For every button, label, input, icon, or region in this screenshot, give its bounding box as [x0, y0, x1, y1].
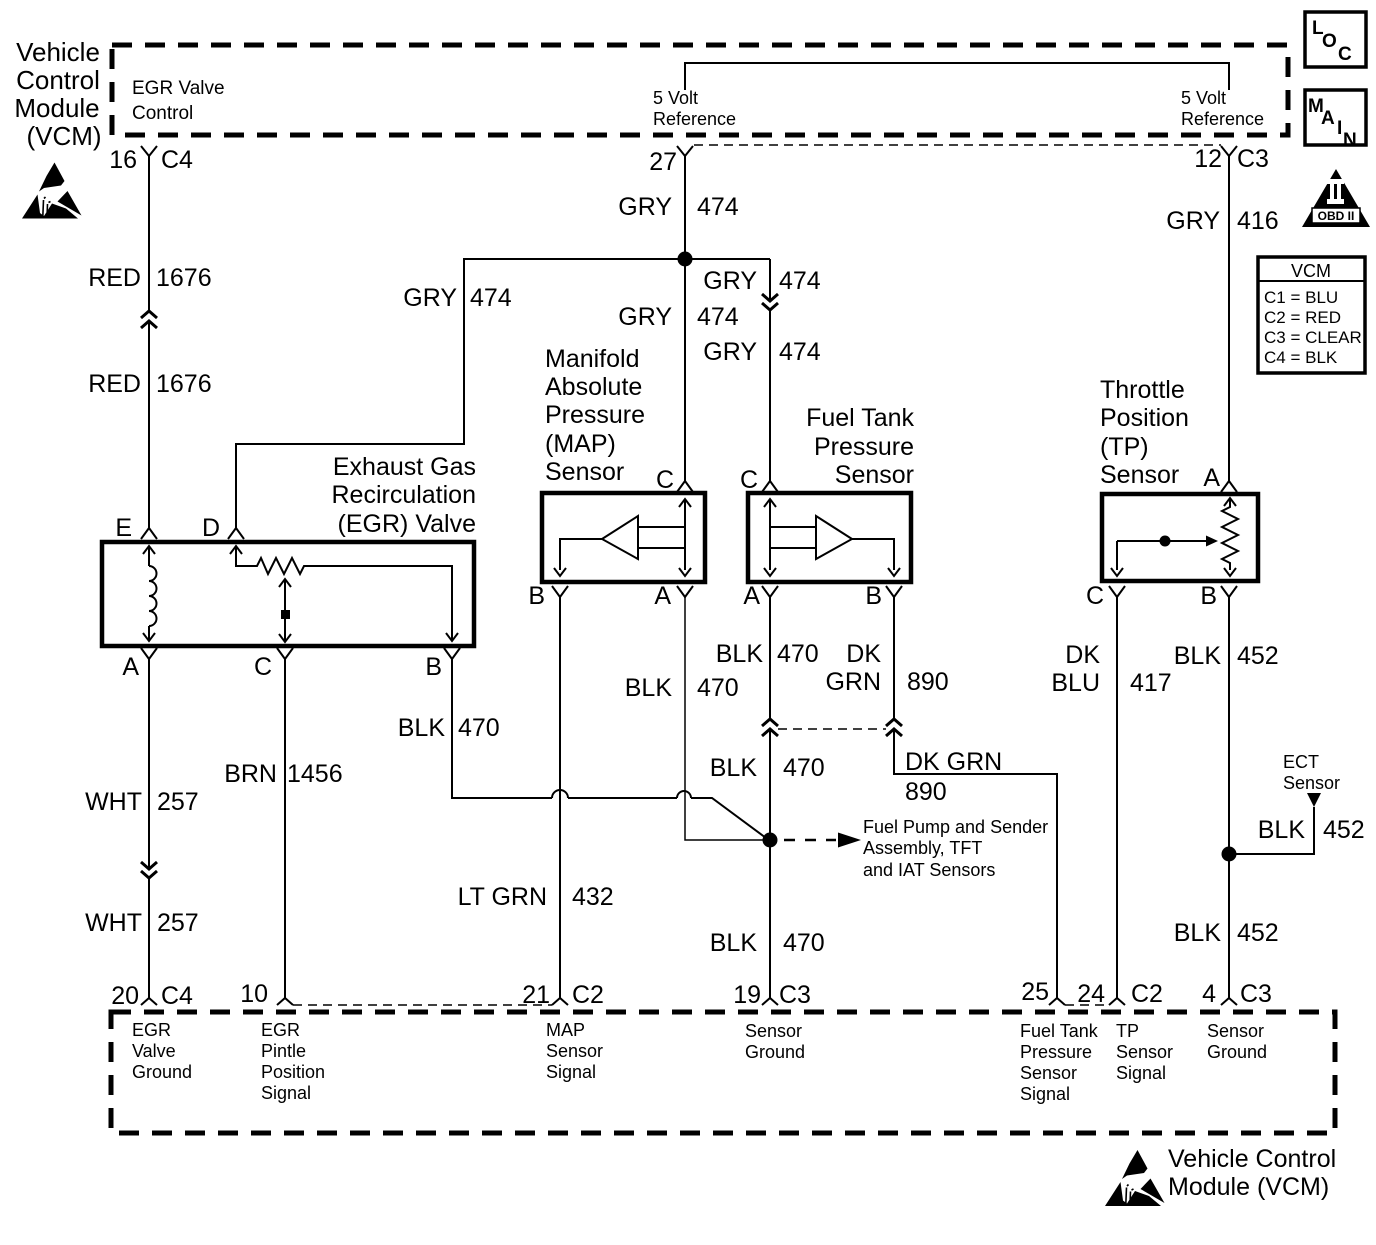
svg-text:C: C	[1086, 582, 1104, 610]
connector fork TP pin C	[1109, 586, 1125, 597]
svg-text:Sensor: Sensor	[1207, 1021, 1264, 1041]
wire break chevrons (up) FTP B	[886, 719, 902, 736]
wire GRY 416 pin 12 to TP A	[1228, 156, 1230, 481]
wire GRY 474 FTP C lower	[769, 310, 771, 481]
svg-text:C4 = BLK: C4 = BLK	[1264, 348, 1338, 367]
svg-text:Pintle: Pintle	[261, 1041, 306, 1061]
svg-text:432: 432	[572, 883, 614, 911]
svg-text:Sensor: Sensor	[1100, 461, 1179, 489]
svg-text:417: 417	[1130, 669, 1172, 697]
wire BRN 1456 EGR C to pin 10	[284, 659, 286, 998]
svg-text:Fuel Tank: Fuel Tank	[1020, 1021, 1099, 1041]
svg-text:10: 10	[240, 980, 268, 1008]
svg-text:and IAT Sensors: and IAT Sensors	[863, 860, 995, 880]
svg-text:C2 = RED: C2 = RED	[1264, 308, 1341, 327]
svg-text:Sensor: Sensor	[546, 1041, 603, 1061]
svg-text:Pressure: Pressure	[545, 401, 645, 429]
wire hop over MAP B wire	[552, 790, 568, 798]
svg-text:BLK: BLK	[710, 754, 758, 782]
svg-text:4: 4	[1202, 980, 1216, 1008]
wire 5 volt reference bus	[685, 63, 1229, 90]
svg-text:Sensor: Sensor	[545, 458, 624, 486]
svg-text:O: O	[1322, 31, 1337, 52]
thin dashed connector line pin10 to pin21	[293, 1004, 552, 1006]
TP sensor box	[1102, 494, 1258, 581]
svg-text:TP: TP	[1116, 1021, 1139, 1041]
connector fork pin 24	[1109, 998, 1125, 1005]
svg-text:470: 470	[697, 674, 739, 702]
svg-text:WHT: WHT	[85, 788, 142, 816]
svg-text:Position: Position	[1100, 404, 1189, 432]
MAP internal reference line with arrows	[679, 499, 691, 576]
svg-text:GRY: GRY	[618, 193, 672, 221]
svg-text:474: 474	[697, 303, 739, 331]
svg-text:C4: C4	[161, 982, 193, 1010]
svg-text:1676: 1676	[156, 370, 212, 398]
svg-text:C3 = CLEAR: C3 = CLEAR	[1264, 328, 1362, 347]
svg-text:Valve: Valve	[132, 1041, 176, 1061]
svg-text:D: D	[202, 514, 220, 542]
ESD symbol top left	[22, 163, 82, 219]
svg-text:Sensor: Sensor	[1283, 773, 1340, 793]
connector fork FTP pin C	[762, 481, 778, 492]
svg-text:BLK: BLK	[398, 714, 446, 742]
svg-text:Reference: Reference	[1181, 109, 1264, 129]
svg-text:EGR: EGR	[132, 1020, 171, 1040]
svg-text:Signal: Signal	[546, 1062, 596, 1082]
connector fork MAP pin C	[677, 481, 693, 492]
wire BLK 452 TP B through junction to pin 4	[1228, 597, 1230, 998]
svg-text:Control: Control	[16, 65, 100, 95]
connector fork EGR pin D	[228, 528, 244, 539]
svg-text:5 Volt: 5 Volt	[653, 88, 698, 108]
VCM connector legend box	[1258, 257, 1365, 373]
svg-text:BLK: BLK	[1174, 642, 1222, 670]
svg-text:Throttle: Throttle	[1100, 376, 1185, 404]
svg-text:B: B	[425, 653, 442, 681]
svg-text:GRY: GRY	[703, 338, 757, 366]
svg-text:WHT: WHT	[85, 909, 142, 937]
svg-text:BLK: BLK	[1258, 816, 1306, 844]
FTP internal reference line with arrows	[764, 499, 776, 576]
connector fork pin 20	[141, 998, 157, 1005]
svg-text:16: 16	[109, 146, 137, 174]
svg-text:Vehicle Control: Vehicle Control	[1168, 1145, 1336, 1173]
TP wiper with splice dot and arrow	[1111, 536, 1218, 577]
svg-text:BLK: BLK	[1174, 919, 1222, 947]
wire continues	[568, 797, 677, 799]
TP internal resistor	[1222, 498, 1238, 576]
FTP amp input stubs	[770, 527, 816, 548]
svg-text:C2: C2	[1131, 980, 1163, 1008]
svg-text:BLU: BLU	[1051, 669, 1100, 697]
wire RED 1676 upper segment	[148, 156, 150, 311]
svg-text:Ground: Ground	[745, 1042, 805, 1062]
wire RED 1676 lower segment to EGR pin E	[148, 321, 150, 528]
svg-text:Exhaust Gas: Exhaust Gas	[333, 453, 476, 481]
wire diagonal into sensor-ground junction	[691, 798, 766, 838]
wire hop over MAP A wire	[677, 791, 691, 798]
svg-text:DK: DK	[1065, 641, 1100, 669]
wire WHT 257 lower to pin 20	[148, 878, 150, 998]
svg-text:GRY: GRY	[618, 303, 672, 331]
FTP internal amplifier triangle	[816, 516, 852, 559]
svg-text:5 Volt: 5 Volt	[1181, 88, 1226, 108]
wire GRY 474 FTP C upper	[769, 259, 771, 300]
connector fork pin 19	[762, 998, 778, 1005]
svg-text:VCM: VCM	[1291, 261, 1331, 281]
connector fork EGR pin B	[444, 648, 460, 659]
wire BLK 470 FTP A upper	[769, 597, 771, 719]
svg-text:Ground: Ground	[132, 1062, 192, 1082]
connector fork pin 25	[1049, 998, 1065, 1005]
svg-text:24: 24	[1077, 980, 1105, 1008]
svg-text:BRN: BRN	[224, 760, 277, 788]
MAP internal amplifier triangle	[602, 516, 638, 559]
VCM bottom module dashed box	[111, 1012, 1335, 1133]
VCM top module dashed box	[112, 45, 1288, 135]
svg-text:RED: RED	[88, 264, 141, 292]
svg-text:Module: Module	[14, 93, 99, 123]
svg-text:470: 470	[777, 640, 819, 668]
svg-text:RED: RED	[88, 370, 141, 398]
connector fork EGR pin E	[141, 528, 157, 539]
svg-text:470: 470	[783, 929, 825, 957]
svg-text:257: 257	[157, 788, 199, 816]
svg-text:BLK: BLK	[625, 674, 673, 702]
wire DK GRN 890 lower run to pin 25	[894, 729, 1057, 998]
svg-text:ECT: ECT	[1283, 752, 1319, 772]
wire WHT 257 upper segment	[148, 659, 150, 868]
EGR pintle position potentiometer	[230, 546, 458, 641]
svg-text:Signal: Signal	[1116, 1063, 1166, 1083]
ESD symbol bottom right	[1105, 1150, 1165, 1206]
svg-text:19: 19	[733, 981, 761, 1009]
svg-text:A: A	[1321, 108, 1335, 129]
svg-text:21: 21	[522, 981, 550, 1009]
connector fork pin 16	[141, 146, 157, 156]
ECT sensor junction dot	[1222, 847, 1237, 862]
thin dashed connector line pin25 to pin24	[1065, 1004, 1109, 1006]
svg-text:Ground: Ground	[1207, 1042, 1267, 1062]
svg-text:GRY: GRY	[403, 284, 457, 312]
svg-text:BLK: BLK	[716, 640, 764, 668]
svg-text:Fuel Pump and Sender: Fuel Pump and Sender	[863, 817, 1048, 837]
svg-text:Vehicle: Vehicle	[16, 37, 100, 67]
connector fork pin 21	[552, 998, 568, 1005]
svg-text:1456: 1456	[287, 760, 343, 788]
svg-text:A: A	[743, 582, 760, 610]
svg-text:Sensor: Sensor	[1020, 1063, 1077, 1083]
svg-text:Absolute: Absolute	[545, 373, 642, 401]
connector fork TP pin A	[1221, 481, 1237, 492]
sensor ground junction dot	[763, 833, 778, 848]
svg-text:Manifold: Manifold	[545, 345, 640, 373]
svg-text:BLK: BLK	[710, 929, 758, 957]
svg-text:OBD II: OBD II	[1318, 209, 1355, 223]
connector fork FTP pin B	[886, 586, 902, 597]
connector fork pin 4	[1221, 998, 1237, 1005]
svg-text:(TP): (TP)	[1100, 433, 1149, 461]
svg-text:Signal: Signal	[261, 1083, 311, 1103]
wire break chevrons (up) on RED wire	[141, 311, 157, 328]
svg-text:C3: C3	[1237, 145, 1269, 173]
svg-text:Assembly, TFT: Assembly, TFT	[863, 838, 982, 858]
svg-text:890: 890	[905, 778, 947, 806]
svg-text:C2: C2	[572, 981, 604, 1009]
wire junction to EGR pin D	[236, 259, 685, 528]
EGR solenoid coil with arrows	[143, 546, 157, 641]
svg-text:Sensor: Sensor	[745, 1021, 802, 1041]
svg-text:EGR Valve: EGR Valve	[132, 78, 225, 99]
ECT sensor off-page triangle	[1307, 793, 1321, 807]
connector fork EGR pin C	[277, 648, 293, 659]
svg-text:C: C	[1338, 44, 1352, 65]
svg-text:C: C	[254, 653, 272, 681]
svg-text:25: 25	[1021, 978, 1049, 1006]
svg-text:C: C	[656, 466, 674, 494]
junction node splice dot	[678, 252, 693, 267]
connector fork TP pin B	[1221, 586, 1237, 597]
svg-text:B: B	[1200, 582, 1217, 610]
svg-text:Module (VCM): Module (VCM)	[1168, 1173, 1329, 1201]
svg-text:452: 452	[1323, 816, 1365, 844]
svg-text:Sensor: Sensor	[1116, 1042, 1173, 1062]
wire MAP A to junction	[685, 597, 766, 840]
svg-text:MAP: MAP	[546, 1020, 585, 1040]
thin dashed connector line pin27 to pin12	[694, 144, 1221, 146]
wire GRY 474 pin27 down to MAP C	[684, 156, 686, 481]
wire BLK 452 stub to ECT sensor	[1229, 807, 1314, 854]
connector fork MAP pin B	[552, 586, 568, 597]
svg-text:474: 474	[697, 193, 739, 221]
wire break chevrons (up) FTP A	[762, 719, 778, 736]
EGR valve box	[102, 542, 474, 646]
svg-text:890: 890	[907, 668, 949, 696]
svg-text:452: 452	[1237, 642, 1279, 670]
LOC reference box	[1305, 12, 1366, 67]
wire BLK 470 from EGR B down and across with hops	[452, 659, 552, 798]
connector fork pin 12	[1221, 146, 1237, 156]
MAIN reference box	[1305, 90, 1366, 151]
svg-text:C1 = BLU: C1 = BLU	[1264, 288, 1338, 307]
svg-text:27: 27	[649, 148, 677, 176]
connector fork EGR pin A	[141, 648, 157, 659]
svg-text:Pressure: Pressure	[1020, 1042, 1092, 1062]
svg-text:474: 474	[779, 267, 821, 295]
svg-text:Recirculation: Recirculation	[331, 481, 476, 509]
wire break chevrons (down) WHT wire	[141, 862, 157, 878]
svg-text:EGR: EGR	[261, 1020, 300, 1040]
svg-text:DK GRN: DK GRN	[905, 748, 1002, 776]
svg-text:(EGR) Valve: (EGR) Valve	[338, 510, 476, 538]
svg-text:20: 20	[111, 982, 139, 1010]
wire DK GRN 890 FTP B upper	[893, 597, 895, 719]
svg-text:C3: C3	[1240, 980, 1272, 1008]
svg-text:257: 257	[157, 909, 199, 937]
svg-text:Sensor: Sensor	[835, 461, 914, 489]
svg-text:Fuel Tank: Fuel Tank	[806, 404, 914, 432]
svg-text:B: B	[528, 582, 545, 610]
svg-text:416: 416	[1237, 207, 1279, 235]
svg-text:Pressure: Pressure	[814, 433, 914, 461]
svg-text:Position: Position	[261, 1062, 325, 1082]
connector fork pin 10	[277, 998, 293, 1005]
wire LT GRN 432 MAP B to pin 21	[559, 597, 561, 998]
svg-text:452: 452	[1237, 919, 1279, 947]
svg-text:C4: C4	[161, 146, 193, 174]
svg-text:474: 474	[470, 284, 512, 312]
svg-text:GRN: GRN	[825, 668, 881, 696]
svg-text:LT GRN: LT GRN	[458, 883, 547, 911]
svg-text:12: 12	[1194, 145, 1222, 173]
svg-text:E: E	[115, 514, 132, 542]
svg-text:A: A	[122, 653, 139, 681]
svg-text:(MAP): (MAP)	[545, 430, 616, 458]
svg-text:470: 470	[458, 714, 500, 742]
svg-text:GRY: GRY	[1166, 207, 1220, 235]
OBD II symbol	[1302, 169, 1370, 227]
connector fork MAP pin A	[677, 586, 693, 597]
svg-text:470: 470	[783, 754, 825, 782]
svg-text:A: A	[1203, 464, 1220, 492]
FTP amp output to pin B	[852, 539, 894, 570]
thin dashed link between breaks	[778, 728, 886, 730]
svg-text:Signal: Signal	[1020, 1084, 1070, 1104]
svg-text:474: 474	[779, 338, 821, 366]
MAP sensor box	[542, 493, 705, 582]
connector fork FTP pin A	[762, 586, 778, 597]
wire DK BLU 417 TP C to pin 24	[1116, 597, 1118, 998]
svg-text:B: B	[865, 582, 882, 610]
svg-text:I: I	[1337, 118, 1342, 139]
wire FTP A lower through junction to pin 19	[769, 729, 771, 998]
svg-text:N: N	[1343, 130, 1357, 151]
svg-text:DK: DK	[846, 640, 881, 668]
svg-text:Reference: Reference	[653, 109, 736, 129]
svg-text:A: A	[654, 582, 671, 610]
svg-text:C: C	[740, 466, 758, 494]
MAP amp input stubs	[638, 527, 685, 548]
svg-text:C3: C3	[779, 981, 811, 1009]
connector fork pin 27	[677, 146, 693, 156]
svg-text:GRY: GRY	[703, 267, 757, 295]
wire break chevrons (down) on FTP C wire	[762, 294, 778, 310]
svg-text:Control: Control	[132, 103, 193, 124]
MAP amp output to pin B	[560, 539, 602, 570]
svg-text:(VCM): (VCM)	[26, 121, 101, 151]
svg-text:1676: 1676	[156, 264, 212, 292]
Fuel Tank Pressure sensor box	[748, 493, 911, 582]
wire junction to FTP C branch	[685, 258, 770, 260]
EGR pintle wiper	[279, 579, 291, 642]
dashed reference arrow to fuel pump assembly	[784, 833, 861, 848]
